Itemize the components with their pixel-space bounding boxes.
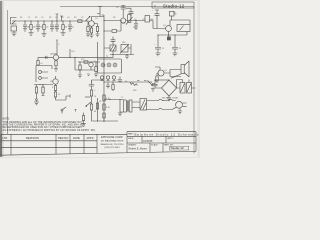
svg-text:C6: C6 bbox=[116, 7, 118, 9]
svg-text:NOTE:: NOTE: bbox=[3, 117, 11, 120]
svg-text:EPIPHONE CORP.: EPIPHONE CORP. bbox=[101, 135, 123, 139]
svg-text:APP'D: APP'D bbox=[87, 137, 94, 140]
svg-text:R9: R9 bbox=[113, 17, 115, 19]
svg-text:25: 25 bbox=[162, 48, 164, 50]
svg-text:APP'T:: APP'T: bbox=[168, 137, 175, 140]
svg-text:Studio-12: Studio-12 bbox=[171, 146, 185, 150]
svg-text:AS EXPRESSLY AUTHORIZED IN WRI: AS EXPRESSLY AUTHORIZED IN WRITING BY AN… bbox=[3, 129, 97, 132]
svg-text:T2: T2 bbox=[106, 56, 108, 58]
svg-text:Q1: Q1 bbox=[95, 18, 98, 20]
svg-text:DATE:: DATE: bbox=[128, 137, 134, 140]
svg-text:C2: C2 bbox=[41, 17, 43, 19]
svg-text:40: 40 bbox=[125, 81, 127, 83]
svg-text:C8: C8 bbox=[173, 12, 175, 14]
svg-text:.02: .02 bbox=[72, 27, 74, 29]
svg-text:Q6: Q6 bbox=[50, 81, 53, 83]
svg-text:DRAWN:: DRAWN: bbox=[128, 144, 137, 147]
svg-text:10/30/95: 10/30/95 bbox=[143, 140, 153, 143]
svg-text:T1: T1 bbox=[121, 97, 123, 99]
svg-text:PART:: PART: bbox=[128, 133, 134, 136]
svg-text:(615) 871-4500: (615) 871-4500 bbox=[105, 147, 121, 149]
svg-text:NASHVILLE, TN 37210: NASHVILLE, TN 37210 bbox=[101, 143, 125, 146]
svg-text:REVISION: REVISION bbox=[26, 136, 39, 140]
svg-text:Studio-12: Studio-12 bbox=[163, 3, 185, 8]
svg-text:C10: C10 bbox=[71, 51, 74, 53]
svg-text:R30: R30 bbox=[133, 90, 136, 92]
svg-text:Q2: Q2 bbox=[134, 19, 137, 21]
svg-text:.02: .02 bbox=[142, 19, 145, 21]
svg-text:C4: C4 bbox=[67, 17, 69, 19]
svg-text:2N5088: 2N5088 bbox=[50, 54, 57, 56]
svg-text:C3: C3 bbox=[55, 17, 57, 19]
svg-text:R5: R5 bbox=[74, 17, 76, 19]
svg-text:Q5: Q5 bbox=[164, 70, 167, 72]
svg-text:R4: R4 bbox=[61, 17, 63, 19]
svg-text:Q7: Q7 bbox=[93, 61, 96, 63]
svg-text:645 MASSMAN DRIVE: 645 MASSMAN DRIVE bbox=[101, 140, 124, 143]
svg-text:R2: R2 bbox=[35, 17, 37, 19]
svg-text:C1: C1 bbox=[28, 17, 30, 19]
svg-text:SCALE:: SCALE: bbox=[151, 144, 159, 147]
svg-text:Robert E. Moore: Robert E. Moore bbox=[129, 147, 148, 150]
svg-text:2o: 2o bbox=[41, 63, 43, 65]
svg-text:R1: R1 bbox=[20, 17, 22, 19]
svg-text:Epiphone Studio 12 Schematic: Epiphone Studio 12 Schematic bbox=[135, 133, 200, 137]
svg-text:Q3: Q3 bbox=[163, 25, 166, 27]
svg-text:DATE: DATE bbox=[73, 136, 80, 140]
svg-text:SEL RECT 117VAC: SEL RECT 117VAC bbox=[162, 96, 179, 99]
svg-text:.02: .02 bbox=[46, 27, 48, 29]
svg-text:R3: R3 bbox=[49, 17, 51, 19]
svg-text:LTR: LTR bbox=[3, 136, 8, 140]
svg-text:25: 25 bbox=[179, 48, 181, 50]
svg-text:C5: C5 bbox=[81, 17, 83, 19]
svg-text:PER NO: PER NO bbox=[58, 136, 68, 140]
